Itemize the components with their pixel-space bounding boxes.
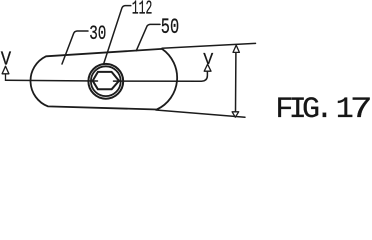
leader line for 50: [136, 24, 160, 50]
right section arrow: [204, 64, 211, 71]
svg-text:112: 112: [132, 0, 153, 19]
leader line for 30: [62, 31, 88, 64]
svg-text:FIG.: FIG.: [275, 93, 333, 120]
svg-text:50: 50: [161, 15, 179, 40]
hexagon recess 50: [93, 72, 119, 89]
dimension arrowhead top: [233, 45, 239, 52]
leader line for 112: [104, 6, 131, 64]
top extension line: [162, 43, 256, 48]
dimension line (vertical): [235, 53, 237, 112]
dimension arrowhead bottom: [232, 112, 239, 117]
centerline left segment: [6, 79, 98, 82]
bottom extension line: [156, 110, 245, 117]
hex socket inner circle: [91, 66, 121, 96]
svg-text:7: 7: [350, 92, 372, 120]
svg-text:30: 30: [89, 23, 106, 46]
hex socket outer circle 112: [88, 64, 123, 99]
centerline right segment with elbow to right section arrow: [114, 71, 208, 81]
left section arrow: [2, 66, 9, 80]
body outline (fastener part 30): [30, 49, 177, 110]
